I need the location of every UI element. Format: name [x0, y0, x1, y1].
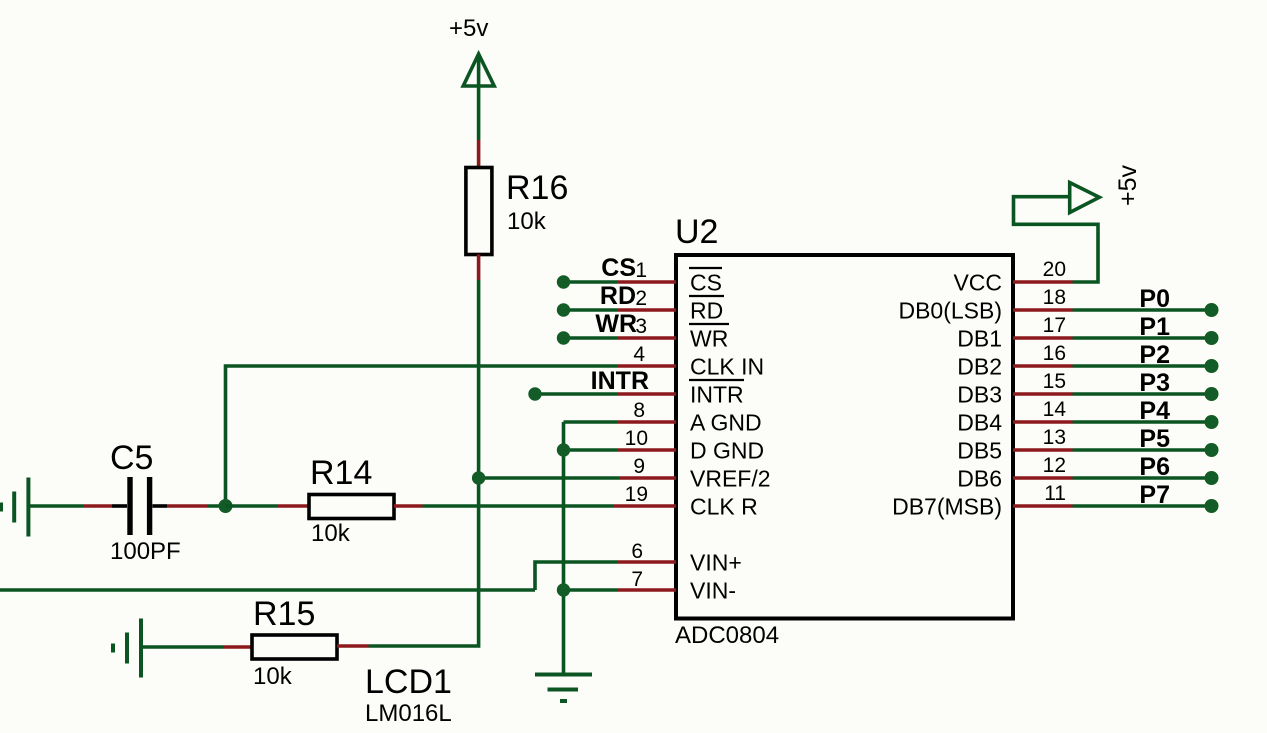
svg-text:P6: P6	[1139, 453, 1170, 481]
svg-text:+5v: +5v	[449, 15, 488, 42]
svg-text:17: 17	[1043, 314, 1066, 337]
wire C5 to junction (red then green)	[167, 504, 226, 508]
svg-text:14: 14	[1043, 398, 1067, 421]
wire junction to R14 (green then red)	[226, 504, 310, 508]
svg-text:P1: P1	[1139, 313, 1170, 341]
svg-text:DB3: DB3	[957, 382, 1002, 408]
svg-text:P2: P2	[1139, 341, 1170, 369]
svg-text:7: 7	[631, 568, 643, 591]
pin name INTR with overline	[689, 380, 744, 408]
svg-text:CLK IN: CLK IN	[690, 354, 764, 380]
pin 15 DB3 stub	[1013, 387, 1219, 401]
svg-text:P3: P3	[1139, 369, 1170, 397]
resistor R14	[309, 495, 394, 519]
svg-text:DB6: DB6	[957, 466, 1002, 492]
pin 5 INTR stub	[528, 387, 676, 400]
svg-text:WR: WR	[690, 326, 728, 352]
svg-text:10: 10	[625, 427, 648, 450]
wire R14 right (red)	[394, 504, 423, 508]
pin 12 DB6 stub	[1013, 471, 1219, 485]
svg-text:19: 19	[625, 483, 648, 506]
svg-text:3: 3	[635, 315, 647, 338]
ground under VIN-	[535, 675, 592, 702]
svg-text:INTR: INTR	[690, 382, 744, 408]
svg-text:DB7(MSB): DB7(MSB)	[892, 494, 1002, 520]
pin 3 WR stub	[557, 331, 676, 344]
pin name WR with overline	[689, 324, 729, 352]
svg-text:WR: WR	[595, 310, 637, 338]
pin 20 VCC stub and route to +5v	[1013, 197, 1098, 282]
svg-text:R14: R14	[310, 454, 372, 492]
wire ground to R15 (red)	[223, 645, 252, 649]
svg-text:12: 12	[1043, 454, 1066, 477]
svg-text:16: 16	[1043, 342, 1066, 365]
capacitor C5	[112, 477, 167, 535]
pin 9 VREF/2 stub	[472, 471, 676, 484]
pin 6 VIN+ wire	[535, 562, 676, 590]
resistor R15	[252, 635, 337, 659]
wire long left VIN+ net	[0, 588, 535, 592]
wire vertical A R16 to VREF/2 junction and down to R15 row	[369, 280, 479, 646]
pin 7 VIN- stub	[557, 583, 676, 596]
svg-text:4: 4	[633, 343, 645, 366]
wire vertical B A GND to ground	[562, 422, 566, 674]
pin 2 RD stub	[557, 303, 676, 316]
pin 8 A GND stub	[564, 420, 677, 424]
svg-text:2: 2	[635, 287, 647, 310]
svg-text:CLK R: CLK R	[690, 494, 758, 520]
svg-text:10k: 10k	[507, 208, 547, 235]
pin 4 CLK IN wire to C5 junction	[226, 366, 677, 506]
svg-text:10k: 10k	[253, 663, 293, 690]
pin 19 CLK R wire from R14	[423, 504, 677, 508]
svg-text:10k: 10k	[311, 520, 351, 547]
svg-text:P4: P4	[1139, 397, 1170, 425]
svg-text:8: 8	[633, 399, 645, 422]
pin 14 DB4 stub	[1013, 415, 1219, 429]
svg-text:DB0(LSB): DB0(LSB)	[898, 298, 1002, 324]
wire ground to R15 (green)	[141, 645, 223, 649]
svg-text:P7: P7	[1139, 481, 1170, 509]
IC U2 box	[676, 255, 1013, 619]
ground left of C5	[1, 478, 28, 537]
svg-text:CS: CS	[601, 254, 636, 282]
svg-text:CS: CS	[690, 270, 722, 296]
svg-text:A GND: A GND	[690, 410, 762, 436]
svg-text:C5: C5	[110, 439, 153, 477]
pin 16 DB2 stub	[1013, 359, 1219, 373]
wire R15 right (red)	[337, 644, 369, 648]
junction node C5/CLK-IN	[219, 499, 233, 513]
svg-text:RD: RD	[600, 282, 636, 310]
svg-text:RD: RD	[690, 298, 723, 324]
svg-text:DB5: DB5	[957, 438, 1002, 464]
ground left of R15	[113, 619, 141, 678]
resistor R16	[466, 168, 492, 255]
svg-text:ADC0804: ADC0804	[675, 622, 779, 649]
pin 13 DB5 stub	[1013, 443, 1219, 457]
svg-text:P5: P5	[1139, 425, 1170, 453]
pin 17 DB1 stub	[1013, 331, 1219, 345]
power +5v right arrow symbol	[1070, 183, 1100, 213]
svg-text:U2: U2	[675, 213, 718, 251]
wire R16 bottom (red)	[477, 255, 481, 281]
pin 11 DB7 stub	[1013, 499, 1219, 513]
svg-text:100PF: 100PF	[110, 538, 181, 565]
svg-text:P0: P0	[1139, 285, 1170, 313]
svg-text:20: 20	[1043, 258, 1066, 281]
svg-text:VIN-: VIN-	[690, 578, 736, 604]
svg-text:18: 18	[1043, 286, 1066, 309]
svg-text:VIN+: VIN+	[690, 550, 742, 576]
pin 10 D GND stub	[557, 443, 676, 456]
svg-text:13: 13	[1043, 426, 1066, 449]
wire power to R16 (red)	[477, 140, 481, 168]
svg-text:DB1: DB1	[957, 326, 1002, 352]
svg-text:6: 6	[631, 540, 643, 563]
svg-text:VCC: VCC	[953, 270, 1002, 296]
wire ground to C5 (green)	[28, 504, 83, 508]
pin name CS with overline	[689, 268, 722, 296]
pin 1 CS stub	[557, 275, 676, 288]
svg-text:DB4: DB4	[957, 410, 1002, 436]
svg-text:15: 15	[1043, 370, 1066, 393]
svg-text:11: 11	[1044, 482, 1066, 505]
pin 18 DB0 stub	[1013, 303, 1219, 317]
svg-text:+5v: +5v	[1114, 164, 1142, 206]
svg-text:9: 9	[633, 455, 645, 478]
svg-text:R16: R16	[506, 169, 568, 207]
wire ground to C5 (red)	[83, 504, 112, 508]
svg-text:D GND: D GND	[690, 438, 764, 464]
svg-text:LM016L: LM016L	[365, 700, 452, 727]
svg-text:INTR: INTR	[591, 367, 649, 395]
svg-text:DB2: DB2	[957, 354, 1002, 380]
svg-text:LCD1: LCD1	[365, 663, 452, 701]
svg-text:R15: R15	[253, 595, 315, 633]
pin name RD with overline	[689, 296, 724, 324]
svg-text:VREF/2: VREF/2	[690, 466, 771, 492]
power +5v top arrow symbol	[463, 54, 494, 140]
svg-text:1: 1	[635, 259, 647, 282]
